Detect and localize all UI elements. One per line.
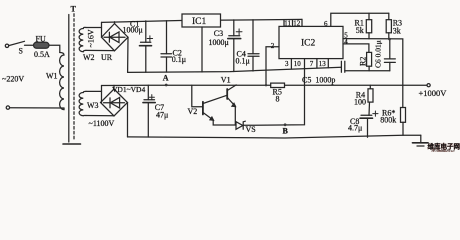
- svg-text:R2: R2: [359, 57, 368, 66]
- wire IC1 ground pin: [201, 27, 203, 72]
- pin 4 wire: [343, 44, 369, 53]
- pin 5 wire: [343, 39, 403, 108]
- wire: [50, 45, 60, 52]
- svg-text:FU: FU: [36, 35, 46, 44]
- capacitor C2: [166, 21, 168, 54]
- svg-text:~16V: ~16V: [87, 29, 96, 47]
- svg-text:3k: 3k: [393, 26, 401, 35]
- wire: [86, 27, 102, 29]
- pin 3 tick: [290, 59, 292, 69]
- svg-text:+1000V: +1000V: [419, 88, 448, 98]
- svg-text:C3: C3: [214, 29, 223, 38]
- resistor R5 (in line): [271, 83, 285, 87]
- wire: [10, 107, 64, 109]
- svg-text:W1: W1: [46, 72, 58, 81]
- top rail: [102, 19, 303, 22]
- terminal top-left: [5, 44, 8, 47]
- transformer T core: [73, 14, 75, 140]
- IC2 box: [279, 26, 343, 58]
- A-line (main horizontal): [102, 84, 271, 86]
- terminal bottom-left: [6, 106, 9, 109]
- stub bridge2 top to A-line: [113, 85, 115, 89]
- svg-text:4: 4: [344, 38, 348, 46]
- svg-text:V2: V2: [188, 107, 198, 116]
- capacitor C7: [147, 85, 149, 100]
- svg-text:UR: UR: [101, 53, 113, 62]
- pin 11 tick: [283, 20, 285, 27]
- node B: [284, 123, 287, 126]
- svg-text:S: S: [19, 47, 23, 56]
- svg-text:~220V: ~220V: [2, 75, 24, 84]
- svg-text:VD1~VD4: VD1~VD4: [112, 85, 145, 94]
- wire: [86, 90, 102, 92]
- svg-text:W2: W2: [83, 53, 95, 62]
- transformer core solid line: [68, 15, 70, 143]
- svg-text:~1100V: ~1100V: [89, 119, 115, 128]
- svg-text:IC2: IC2: [301, 39, 316, 49]
- wire: [86, 49, 115, 51]
- common rail (15V section): [128, 67, 342, 72]
- wire: [101, 86, 103, 103]
- svg-text:B: B: [283, 126, 289, 135]
- capacitor C8: [361, 114, 372, 116]
- svg-text:5k: 5k: [356, 26, 364, 35]
- svg-text:10: 10: [294, 60, 302, 68]
- ground rail: [128, 135, 421, 138]
- svg-text:11: 11: [284, 20, 291, 28]
- node A: [165, 84, 168, 87]
- svg-text:0.1μ: 0.1μ: [236, 56, 250, 65]
- winding W2: [79, 27, 86, 51]
- terminal +1000V: [427, 84, 430, 87]
- pin 7 tick: [316, 59, 318, 68]
- wire bridge2 right corner down: [127, 103, 129, 138]
- svg-text:8: 8: [276, 94, 280, 103]
- svg-text:100: 100: [354, 98, 366, 107]
- wire VS to B and up: [244, 68, 305, 125]
- winding W3: [79, 91, 86, 115]
- svg-text:4.7μ: 4.7μ: [348, 124, 362, 133]
- svg-text:C6 0.01μ: C6 0.01μ: [374, 40, 383, 68]
- capacitor C4: [252, 20, 254, 54]
- svg-text:47μ: 47μ: [156, 110, 168, 119]
- svg-text:W3: W3: [87, 101, 99, 110]
- diode VS: [236, 122, 243, 130]
- svg-text:T: T: [71, 5, 77, 14]
- svg-text:V1: V1: [221, 76, 231, 85]
- capacitor C3: [233, 20, 235, 36]
- resistor R3: [388, 13, 390, 20]
- pin 10 tick: [304, 59, 306, 68]
- svg-text:A: A: [163, 73, 169, 82]
- lower rail right of C5: [345, 70, 390, 72]
- wire: [101, 22, 103, 37]
- svg-text:VS: VS: [246, 125, 256, 134]
- svg-text:2: 2: [271, 42, 275, 50]
- svg-text:13: 13: [319, 60, 327, 68]
- svg-text:7: 7: [310, 60, 314, 68]
- capacitor C1: [145, 21, 147, 42]
- op-amp IC1 box: [182, 14, 221, 27]
- svg-text:3: 3: [285, 60, 289, 68]
- rectifier VD1~VD4: [101, 89, 128, 116]
- capacitor C6: [389, 39, 391, 59]
- pin 2 wire: [266, 47, 279, 85]
- capacitor C5 (in rail): [340, 61, 342, 72]
- rectifier UR: [102, 24, 129, 51]
- wire: [25, 44, 34, 46]
- svg-text:1000μ: 1000μ: [123, 26, 143, 35]
- wire: bridge right corner down to common rail: [127, 37, 129, 72]
- svg-text:800k: 800k: [380, 115, 396, 124]
- resistor R1: [368, 13, 370, 20]
- svg-text:12: 12: [293, 20, 301, 28]
- switch S: [9, 41, 25, 45]
- fuse FU: [34, 42, 50, 48]
- resistor R2: [367, 52, 372, 66]
- svg-text:C5 1000p: C5 1000p: [302, 76, 335, 85]
- node dot pin5/R3 junction: [388, 38, 391, 41]
- pin 13 tick: [327, 59, 329, 68]
- transistor V2: [202, 102, 204, 115]
- transistor V1: [226, 89, 228, 99]
- resistor R6: [401, 108, 406, 123]
- svg-text:1000μ: 1000μ: [209, 38, 229, 47]
- winding W1: [60, 53, 64, 110]
- svg-text:IC1: IC1: [192, 17, 207, 27]
- ground symbol: [420, 135, 422, 142]
- resistor R4: [369, 85, 371, 89]
- pin 6 wire: [331, 13, 389, 26]
- pin 12 tick: [292, 20, 294, 27]
- svg-text:0.5A: 0.5A: [34, 50, 50, 59]
- svg-text:6: 6: [324, 20, 328, 28]
- stub bridge top to rail: [114, 22, 116, 24]
- svg-text:0.1μ: 0.1μ: [172, 55, 186, 64]
- wire: [86, 115, 114, 117]
- core bottom bar: [63, 143, 81, 145]
